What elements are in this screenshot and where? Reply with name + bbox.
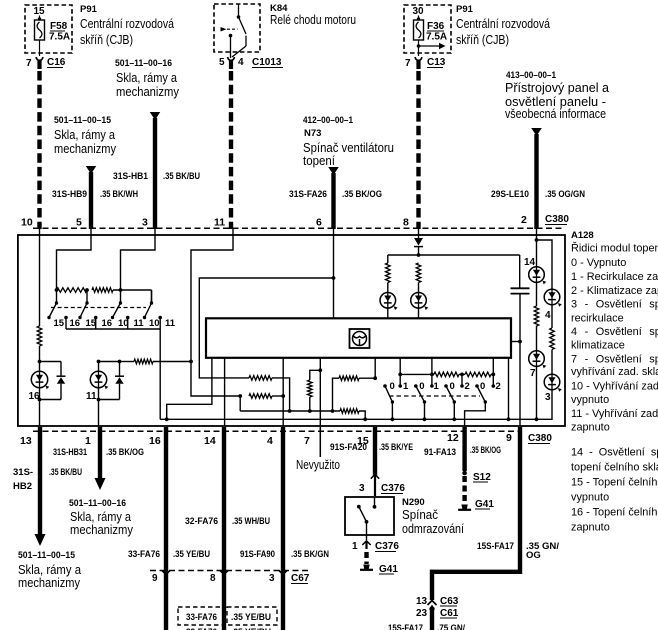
svg-text:11: 11	[165, 318, 176, 329]
svg-text:7.5A: 7.5A	[426, 32, 447, 43]
svg-text:3: 3	[142, 217, 148, 229]
svg-text:1: 1	[352, 541, 358, 552]
svg-text:29S-LE10: 29S-LE10	[491, 189, 529, 200]
svg-text:.35 BK/WH: .35 BK/WH	[100, 189, 138, 200]
svg-text:.35 BK/OG: .35 BK/OG	[106, 447, 144, 458]
svg-text:odmrazování: odmrazování	[402, 522, 464, 536]
svg-text:N290: N290	[402, 497, 425, 508]
svg-text:3 - Osvětlení spínače: 3 - Osvětlení spínače	[571, 299, 658, 311]
svg-text:7: 7	[530, 368, 536, 379]
svg-text:7: 7	[26, 58, 32, 69]
svg-text:C13: C13	[427, 57, 446, 68]
svg-text:3: 3	[269, 573, 275, 584]
svg-text:.35 BK/YE: .35 BK/YE	[379, 442, 413, 453]
svg-text:skříň (CJB): skříň (CJB)	[456, 33, 509, 47]
svg-text:2: 2	[465, 381, 470, 392]
svg-text:14 - Osvětlení spínače: 14 - Osvětlení spínače	[571, 447, 658, 459]
svg-text:C380: C380	[528, 433, 552, 444]
svg-text:91-FA13: 91-FA13	[424, 447, 456, 458]
svg-text:Skla, rámy a: Skla, rámy a	[18, 563, 81, 577]
svg-text:N73: N73	[304, 128, 321, 139]
svg-text:7: 7	[405, 58, 411, 69]
svg-text:0 - Vypnuto: 0 - Vypnuto	[571, 257, 626, 269]
svg-text:1: 1	[434, 381, 440, 392]
svg-text:9: 9	[506, 432, 512, 444]
svg-text:zapnuto: zapnuto	[571, 522, 610, 534]
svg-text:C61: C61	[440, 608, 459, 619]
svg-text:16 - Topení čelního skla: 16 - Topení čelního skla	[571, 507, 658, 519]
svg-text:.35 BK/BU: .35 BK/BU	[49, 467, 82, 478]
svg-text:recirkulace: recirkulace	[571, 312, 624, 324]
svg-text:15: 15	[34, 6, 46, 17]
svg-text:Centrální rozvodová: Centrální rozvodová	[456, 17, 550, 31]
svg-text:8: 8	[403, 217, 409, 229]
svg-text:4 - Osvětlení spínače: 4 - Osvětlení spínače	[571, 326, 658, 338]
svg-text:501–11–00–16: 501–11–00–16	[69, 498, 126, 509]
svg-text:8: 8	[210, 573, 216, 584]
svg-text:C1013: C1013	[252, 57, 282, 68]
svg-text:Spínač ventilátoru: Spínač ventilátoru	[303, 141, 394, 155]
svg-text:16: 16	[29, 391, 41, 402]
svg-text:P91: P91	[456, 4, 474, 15]
svg-text:2: 2	[521, 214, 527, 226]
svg-text:.75 GN/: .75 GN/	[437, 623, 465, 630]
svg-text:11: 11	[86, 391, 97, 402]
svg-text:11: 11	[214, 217, 225, 229]
svg-text:Skla, rámy a: Skla, rámy a	[70, 510, 131, 524]
svg-text:mechanizmy: mechanizmy	[54, 142, 117, 156]
svg-text:2 - Klimatizace zapnuta: 2 - Klimatizace zapnuta	[571, 285, 658, 297]
svg-text:4: 4	[545, 310, 551, 321]
svg-text:7 - Osvětlení spínače: 7 - Osvětlení spínače	[571, 353, 658, 365]
svg-text:501–11–00–15: 501–11–00–15	[18, 550, 76, 561]
svg-text:Relé chodu motoru: Relé chodu motoru	[270, 13, 356, 27]
svg-text:Centrální rozvodová: Centrální rozvodová	[80, 17, 174, 31]
svg-text:.35 YE/BU: .35 YE/BU	[231, 612, 271, 623]
svg-text:32-FA76: 32-FA76	[185, 516, 218, 527]
svg-text:C16: C16	[47, 57, 66, 68]
svg-text:14: 14	[524, 257, 536, 268]
svg-text:501–11–00–15: 501–11–00–15	[54, 115, 112, 126]
svg-text:.35 BK/OG: .35 BK/OG	[470, 445, 501, 456]
svg-text:G41: G41	[475, 499, 494, 510]
svg-text:0: 0	[390, 381, 395, 392]
svg-text:Přístrojový panel a: Přístrojový panel a	[505, 81, 609, 95]
svg-text:Řidici modul topení a klim: Řidici modul topení a klim	[571, 242, 658, 255]
svg-text:klimatizace: klimatizace	[571, 340, 625, 352]
svg-text:15 - Topení čelního skla: 15 - Topení čelního skla	[571, 477, 658, 489]
svg-text:všeobecná informace: všeobecná informace	[505, 107, 606, 121]
svg-text:16: 16	[70, 318, 81, 329]
svg-text:501–11–00–16: 501–11–00–16	[115, 58, 172, 69]
svg-text:14: 14	[204, 435, 216, 447]
svg-text:1: 1	[403, 381, 409, 392]
svg-text:15S-FA17: 15S-FA17	[477, 541, 514, 552]
svg-text:33-FA76: 33-FA76	[128, 549, 160, 560]
svg-text:413–00–00–1: 413–00–00–1	[506, 70, 557, 81]
svg-text:6: 6	[316, 217, 322, 229]
svg-text:31S-: 31S-	[13, 467, 33, 478]
svg-text:OG: OG	[526, 550, 541, 561]
svg-text:4: 4	[238, 57, 244, 68]
svg-text:30: 30	[413, 6, 425, 17]
svg-text:C376: C376	[381, 483, 405, 494]
svg-text:0: 0	[419, 381, 424, 392]
svg-text:31S-HB1: 31S-HB1	[113, 171, 149, 182]
svg-text:15: 15	[86, 318, 97, 329]
svg-text:7: 7	[304, 435, 310, 447]
svg-text:Spínač: Spínač	[402, 508, 438, 522]
svg-text:mechanizmy: mechanizmy	[116, 85, 180, 99]
svg-text:mechanizmy: mechanizmy	[70, 523, 134, 537]
svg-text:.35 BK/BU: .35 BK/BU	[163, 171, 200, 182]
svg-text:.35 WH/BU: .35 WH/BU	[232, 516, 270, 527]
svg-text:.35 YE/BU: .35 YE/BU	[173, 549, 210, 560]
svg-text:13: 13	[20, 435, 32, 447]
svg-text:13: 13	[416, 596, 428, 607]
svg-text:10: 10	[21, 217, 33, 229]
svg-text:Skla, rámy a: Skla, rámy a	[116, 71, 177, 85]
svg-text:vyhřívání zad. skla: vyhřívání zad. skla	[571, 366, 658, 378]
svg-text:vypnuto: vypnuto	[571, 492, 609, 504]
svg-text:A128: A128	[571, 230, 594, 241]
svg-text:10: 10	[149, 318, 160, 329]
svg-text:4: 4	[267, 435, 273, 447]
svg-text:mechanizmy: mechanizmy	[18, 576, 81, 590]
svg-text:.35 BK/GN: .35 BK/GN	[291, 549, 329, 560]
svg-text:C63: C63	[440, 596, 459, 607]
svg-text:2: 2	[496, 381, 501, 392]
svg-text:P91: P91	[80, 4, 98, 15]
svg-text:1: 1	[85, 435, 91, 447]
svg-text:5: 5	[76, 217, 82, 229]
svg-text:topení čelního skla -: topení čelního skla -	[571, 462, 658, 474]
svg-text:0: 0	[480, 381, 485, 392]
svg-text:F58: F58	[50, 21, 68, 32]
svg-text:16: 16	[149, 435, 161, 447]
svg-text:.35 OG/GN: .35 OG/GN	[545, 189, 585, 200]
svg-text:HB2: HB2	[13, 481, 32, 492]
svg-text:3: 3	[545, 392, 551, 403]
svg-text:16: 16	[102, 318, 113, 329]
svg-text:topení: topení	[303, 154, 335, 168]
svg-text:1 - Recirkulace zapnuta: 1 - Recirkulace zapnuta	[571, 271, 658, 283]
svg-text:zapnuto: zapnuto	[571, 421, 610, 433]
svg-text:10: 10	[118, 318, 129, 329]
svg-text:7.5A: 7.5A	[49, 32, 70, 43]
svg-text:31S-HB31: 31S-HB31	[53, 447, 88, 458]
svg-text:G41: G41	[379, 564, 398, 575]
svg-text:0: 0	[450, 381, 455, 392]
svg-text:12: 12	[447, 432, 459, 444]
svg-text:9: 9	[152, 573, 158, 584]
svg-text:Nevyužito: Nevyužito	[296, 458, 340, 472]
svg-text:S12: S12	[473, 472, 491, 483]
svg-text:10 - Vyhřívání zadního: 10 - Vyhřívání zadního	[571, 381, 658, 393]
svg-text:33-FA76: 33-FA76	[186, 612, 217, 623]
svg-text:.35 BK/OG: .35 BK/OG	[342, 189, 382, 200]
svg-text:F36: F36	[427, 21, 445, 32]
svg-text:15S-FA17: 15S-FA17	[388, 623, 423, 630]
svg-text:Skla, rámy a: Skla, rámy a	[54, 128, 115, 142]
svg-text:11: 11	[134, 318, 145, 329]
svg-text:91S-FA20: 91S-FA20	[330, 442, 367, 453]
svg-text:vypnuto: vypnuto	[571, 394, 609, 406]
svg-text:C67: C67	[291, 573, 310, 584]
svg-text:3: 3	[359, 483, 365, 494]
svg-text:C380: C380	[545, 214, 569, 225]
svg-text:31S-FA26: 31S-FA26	[289, 189, 327, 200]
svg-text:23: 23	[416, 608, 428, 619]
svg-text:31S-HB9: 31S-HB9	[52, 189, 87, 200]
svg-text:skříň (CJB): skříň (CJB)	[80, 33, 133, 47]
svg-text:91S-FA90: 91S-FA90	[240, 549, 275, 560]
svg-text:11 - Vyhřívání zadního: 11 - Vyhřívání zadního	[571, 408, 658, 420]
svg-text:412–00–00–1: 412–00–00–1	[303, 115, 354, 126]
svg-text:5: 5	[219, 57, 225, 68]
svg-text:C376: C376	[375, 541, 399, 552]
svg-text:15: 15	[54, 318, 65, 329]
